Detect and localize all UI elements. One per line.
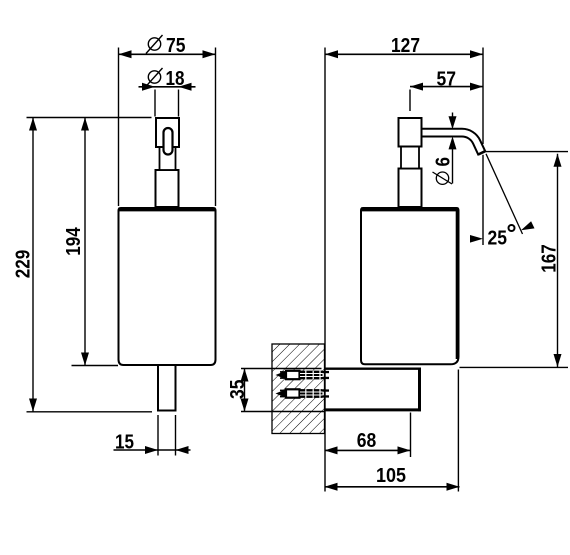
dim 68 line — [325, 449, 411, 451]
pump head (side) — [399, 118, 422, 147]
svg-text:105: 105 — [376, 465, 406, 487]
body (front view bottle) — [119, 208, 216, 365]
dim 127 line — [325, 53, 483, 55]
dim 68 right extension — [410, 413, 412, 458]
spout tube — [422, 129, 486, 155]
dim 167 extensions — [485, 151, 569, 153]
pump neck (side) — [401, 147, 419, 169]
body top thick edge — [119, 207, 216, 211]
svg-text:25: 25 — [488, 227, 508, 249]
25° arrow at slant — [521, 221, 535, 230]
dim 229 line — [32, 118, 34, 412]
dim Ø75 diameter symbol — [148, 38, 160, 50]
dim Ø18 diameter symbol — [148, 71, 160, 83]
dim 35 extension lines (cross the wall block) — [241, 368, 322, 370]
wall section block with hatching — [272, 344, 325, 434]
svg-text:18: 18 — [166, 68, 185, 90]
svg-text:57: 57 — [437, 69, 457, 91]
dim Ø6 text — [433, 157, 455, 184]
25° slant line — [486, 154, 523, 234]
25° reference vertical line — [482, 155, 484, 245]
dim Ø18 extension lines — [154, 90, 156, 117]
pump head (front) — [156, 118, 179, 147]
25° arrow at vertical — [470, 235, 483, 243]
dim 105 right extension — [457, 370, 459, 492]
svg-text:167: 167 — [539, 244, 561, 273]
dim 229 bottom extension — [27, 411, 153, 413]
dim 167 line — [557, 154, 559, 367]
svg-text:75: 75 — [166, 35, 186, 57]
bracket top edge — [325, 368, 422, 370]
dim 15 extension lines — [157, 415, 159, 456]
bracket front (right) edge — [418, 368, 421, 412]
top extension line for 229/194 — [27, 117, 152, 119]
dim Ø18 line — [139, 86, 196, 88]
dim Ø75 arrow right — [203, 50, 216, 58]
dim 57 left extension — [409, 90, 411, 112]
dim 229 text — [13, 250, 35, 279]
pump collar (front) — [156, 170, 179, 207]
dim 15 line — [114, 449, 191, 451]
dim Ø18 arrow right — [179, 83, 192, 91]
dim Ø6 upper arrow — [452, 113, 454, 120]
body (side view bottle) — [361, 208, 459, 364]
dim Ø75 arrow left — [119, 50, 132, 58]
wall face / mounting plane extension line — [324, 48, 326, 492]
dim Ø75 line — [119, 53, 216, 55]
dim Ø75 extension lines — [118, 48, 120, 207]
svg-text:229: 229 — [13, 250, 35, 279]
pump collar (side) — [399, 169, 422, 208]
svg-text:194: 194 — [63, 227, 85, 256]
dim Ø18 arrow left — [142, 83, 155, 91]
bracket bottom edge — [325, 408, 422, 411]
svg-text:15: 15 — [115, 431, 134, 453]
body top thick edge (side) — [361, 207, 459, 211]
screw (lower) — [276, 389, 330, 398]
screw (upper) — [276, 371, 330, 380]
svg-text:6: 6 — [433, 157, 455, 167]
pump neck (front) — [160, 147, 176, 170]
dim 105 line — [325, 486, 460, 488]
svg-text:68: 68 — [357, 430, 377, 452]
dim Ø6 lower arrow and leader — [449, 136, 457, 149]
dim 194 bottom extension — [72, 365, 119, 367]
dim 35 text — [227, 380, 249, 400]
dim 167 text — [539, 244, 561, 273]
body front thick edge (side) — [456, 211, 459, 359]
dim 127 right extension — [482, 48, 484, 145]
dim 57 line — [410, 86, 483, 88]
svg-text:35: 35 — [227, 380, 249, 400]
dim 35 line — [244, 369, 246, 412]
svg-text:127: 127 — [391, 35, 420, 57]
dim 194 text — [63, 227, 85, 256]
dim 15 arrows — [145, 446, 158, 454]
dim 194 line — [84, 118, 86, 366]
bottom stem (front) — [158, 365, 176, 411]
pump head slot — [164, 128, 173, 155]
